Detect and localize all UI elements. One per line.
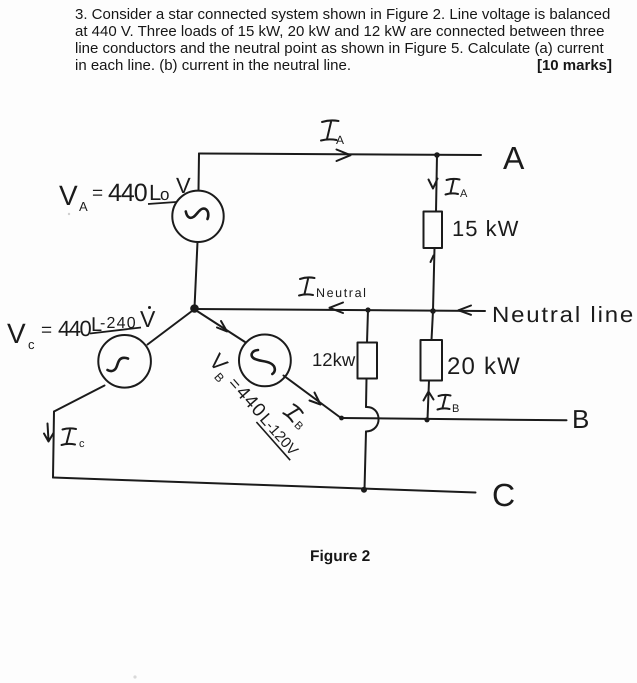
svg-text:o: o xyxy=(160,185,169,204)
svg-text:V: V xyxy=(176,173,191,198)
svg-text:Neutral: Neutral xyxy=(316,286,368,300)
svg-text:A: A xyxy=(336,133,344,147)
svg-text:15 kW: 15 kW xyxy=(452,216,519,241)
svg-text:Neutral line: Neutral line xyxy=(492,303,635,328)
svg-text:A: A xyxy=(79,199,88,214)
svg-text:B: B xyxy=(291,419,305,433)
svg-text:Figure 2: Figure 2 xyxy=(310,548,370,565)
svg-text:=: = xyxy=(92,183,103,204)
svg-text:V: V xyxy=(7,318,26,349)
svg-text:c: c xyxy=(79,438,85,450)
svg-text:20 kW: 20 kW xyxy=(447,353,521,380)
svg-text:A: A xyxy=(460,188,468,200)
svg-text:V: V xyxy=(59,180,78,211)
svg-text:B: B xyxy=(572,404,589,434)
svg-text:440: 440 xyxy=(108,179,147,207)
svg-text:440: 440 xyxy=(58,316,91,341)
svg-text:=: = xyxy=(41,320,52,341)
svg-text:C: C xyxy=(492,477,515,513)
svg-text:B: B xyxy=(452,403,459,415)
svg-text:c: c xyxy=(28,337,35,352)
svg-text:A: A xyxy=(503,140,525,176)
svg-text:V: V xyxy=(140,306,156,332)
svg-text:12kw: 12kw xyxy=(312,349,356,370)
